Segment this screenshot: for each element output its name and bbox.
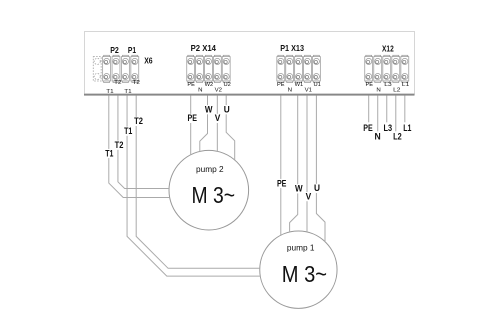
svg-text:U2: U2 (224, 82, 231, 88)
terminal block X6 terminal 5 (131, 55, 139, 82)
svg-text:L3: L3 (384, 123, 393, 133)
wire W X14 to pump2 (200, 96, 208, 152)
wire PE X14 to pump2 (190, 96, 192, 155)
terminal block X6 terminal 4 (121, 55, 129, 82)
svg-text:N: N (288, 88, 292, 94)
svg-text:P2 X14: P2 X14 (191, 43, 217, 53)
X14 terminal label N (198, 88, 202, 94)
svg-text:W1: W1 (295, 82, 304, 88)
svg-text:U: U (314, 183, 320, 193)
label T2 wire pump2 (113, 140, 124, 150)
label T1 wire pump1 (123, 126, 134, 136)
terminal block X12 terminal 3 (383, 55, 391, 82)
wire T1 X6 to pump1 (127, 96, 260, 277)
enclosure bottom rail (84, 94, 415, 96)
terminal block X12 terminal 2 (374, 55, 382, 82)
text pump 2 (196, 164, 224, 174)
svg-text:T2: T2 (134, 116, 143, 126)
svg-text:W: W (295, 184, 303, 194)
terminal block X14 terminal 2 (196, 55, 204, 82)
X13 terminal label PE (277, 82, 285, 88)
text M 3~ pump 2 (192, 182, 236, 208)
label L2 mains (392, 132, 403, 142)
svg-text:PE: PE (277, 82, 285, 88)
wire L2 mains (395, 96, 397, 132)
svg-text:T2: T2 (115, 140, 124, 150)
label PE mains (362, 123, 374, 133)
wire PE X13 to pump1 (280, 96, 282, 236)
svg-text:L2: L2 (393, 132, 402, 142)
terminal block X13 terminal 1 (277, 55, 285, 82)
svg-text:L1: L1 (402, 82, 409, 88)
text M 3~ pump 1 (282, 261, 327, 287)
svg-text:M 3~: M 3~ (282, 261, 327, 287)
label X12 (382, 44, 394, 54)
svg-text:P1: P1 (128, 45, 136, 55)
X6 terminal label T2 (pump2) (114, 80, 121, 86)
label U wire pump1 (313, 183, 321, 193)
text pump 1 (287, 243, 315, 253)
wire T1 X6 to pump2 (109, 96, 170, 198)
svg-text:L1: L1 (403, 123, 411, 133)
label P2 X14 (191, 43, 217, 53)
enclosure box (85, 32, 415, 95)
wire V1 X13 to pump1 (306, 96, 308, 233)
X13 terminal label V1 (305, 88, 312, 94)
svg-text:U: U (224, 105, 230, 115)
svg-text:U1: U1 (314, 82, 321, 88)
X14 terminal label U2 (224, 82, 231, 88)
svg-text:T1: T1 (105, 148, 113, 158)
terminal block X13 terminal 5 (312, 55, 320, 82)
X12 terminal label N (376, 88, 380, 94)
wire N mains (377, 96, 379, 132)
label L1 mains (402, 123, 413, 133)
svg-text:X6: X6 (144, 55, 153, 65)
X14 terminal label W2 (205, 82, 214, 88)
terminal block X13 terminal 2 (286, 55, 294, 82)
X12 terminal label L2 (393, 88, 400, 94)
X13 terminal label U1 (314, 82, 321, 88)
svg-text:PE: PE (187, 82, 195, 88)
svg-text:X12: X12 (382, 44, 394, 54)
label T2 wire pump1 (133, 116, 144, 126)
X6 terminal label T2 (pump1) (133, 80, 140, 86)
X14 terminal label V2 (215, 88, 222, 94)
svg-text:PE: PE (363, 123, 373, 133)
label P1 X13 (280, 43, 304, 53)
terminal block X14 terminal 1 (187, 55, 195, 82)
label PE wire pump1 (276, 178, 288, 188)
terminal block X14 terminal 5 (222, 55, 230, 82)
svg-text:M 3~: M 3~ (192, 182, 236, 208)
label V wire pump2 (214, 113, 222, 123)
terminal block X6 terminal 1 (93, 57, 101, 81)
label P2 above X6 (110, 45, 119, 55)
wire U1 X13 to pump1 (316, 96, 325, 243)
svg-text:T1: T1 (124, 89, 131, 95)
label P1 above X6 (128, 45, 136, 55)
terminal block X13 terminal 3 (295, 55, 303, 82)
svg-text:V: V (215, 113, 221, 123)
X12 terminal label L1 (402, 82, 409, 88)
svg-text:P2: P2 (110, 45, 119, 55)
svg-text:PE: PE (366, 82, 374, 88)
X12 terminal label L3 (384, 82, 391, 88)
svg-text:T2: T2 (133, 80, 140, 86)
X6 terminal label T1 (pump2) (106, 89, 113, 95)
svg-text:N: N (376, 88, 380, 94)
wire T2 X6 to pump1 (136, 96, 260, 269)
svg-text:T1: T1 (124, 126, 132, 136)
label U wire pump2 (223, 105, 231, 115)
terminal block X14 terminal 4 (213, 55, 221, 82)
terminal block X6 terminal 2 (103, 55, 111, 82)
terminal block X12 terminal 1 (365, 55, 373, 82)
terminal block X12 terminal 4 (392, 55, 400, 82)
svg-text:N: N (198, 88, 202, 94)
svg-text:N: N (375, 132, 381, 142)
svg-text:V: V (306, 191, 312, 201)
svg-text:L2: L2 (393, 88, 400, 94)
svg-text:W2: W2 (205, 82, 214, 88)
svg-text:T1: T1 (106, 89, 113, 95)
X13 terminal label N (288, 88, 292, 94)
X13 terminal label W1 (295, 82, 304, 88)
terminal block X13 terminal 4 (304, 55, 312, 82)
wire V X14 to pump2 (216, 96, 218, 152)
motor circle pump 1 (260, 231, 337, 308)
X12 terminal label PE (366, 82, 374, 88)
svg-text:P1 X13: P1 X13 (280, 43, 304, 53)
svg-text:PE: PE (277, 178, 287, 188)
terminal block X6 terminal 3 (112, 55, 120, 82)
label L3 mains (382, 123, 393, 133)
label W wire pump1 (294, 184, 304, 194)
X14 terminal label PE (187, 82, 195, 88)
motor circle pump 2 (169, 150, 249, 230)
label PE wire pump2 (186, 113, 198, 123)
label N mains (373, 132, 382, 142)
svg-text:pump 2: pump 2 (196, 164, 224, 174)
wire L3 mains (386, 96, 388, 123)
wire PE mains (368, 96, 370, 123)
svg-text:T2: T2 (114, 80, 121, 86)
wire T2 X6 to pump2 (118, 96, 169, 189)
svg-text:L3: L3 (384, 82, 391, 88)
terminal block X12 terminal 5 (401, 55, 409, 82)
terminal block X14 terminal 3 (205, 55, 213, 82)
svg-text:W: W (205, 105, 213, 115)
label V wire pump1 (304, 191, 312, 201)
wire L1 mains (404, 96, 406, 123)
svg-text:pump 1: pump 1 (287, 243, 315, 253)
svg-text:V1: V1 (305, 88, 312, 94)
wire W1 X13 to pump1 (290, 96, 298, 233)
wire U X14 to pump2 (226, 96, 235, 161)
X6 terminal label T1 (pump1) (124, 89, 131, 95)
label T1 wire pump2 (104, 148, 115, 158)
label W wire pump2 (204, 105, 214, 115)
label X6 (144, 55, 153, 65)
svg-text:PE: PE (188, 113, 198, 123)
svg-text:V2: V2 (215, 88, 222, 94)
